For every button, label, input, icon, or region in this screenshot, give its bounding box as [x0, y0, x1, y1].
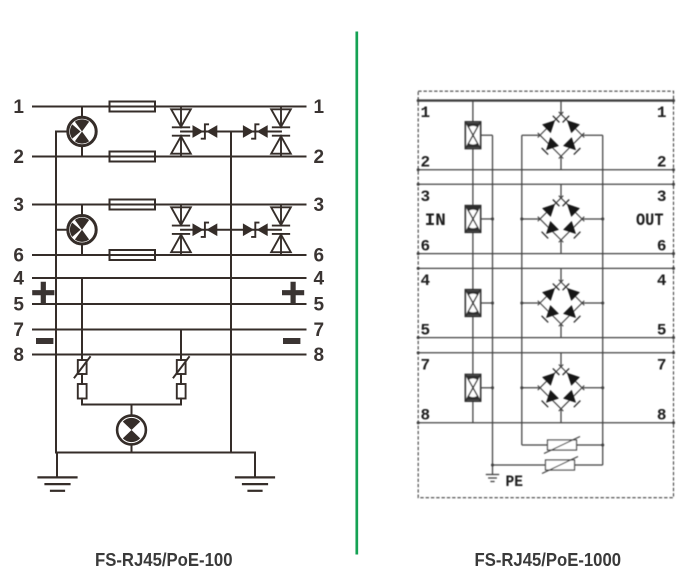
fuse F4	[110, 250, 156, 260]
wire rail 3	[418, 183, 673, 185]
wire branch 2 mid	[180, 374, 182, 384]
wire line 1	[33, 106, 306, 108]
node MOV1 right junction	[601, 443, 604, 446]
wire bridge 1 right stub	[582, 134, 603, 136]
diode bridge BR1	[538, 112, 585, 159]
wire branch 1 lower	[81, 399, 83, 405]
wire bridge 1 top stub	[560, 101, 562, 115]
TVS diode array right column row 1	[271, 107, 291, 157]
fuse F3	[110, 200, 156, 210]
gas discharge tube G3 (right diagram)	[465, 290, 480, 317]
wire line 4	[33, 277, 306, 279]
ground symbol right	[236, 477, 274, 490]
node bridge 2 right junction	[601, 217, 604, 220]
wire bridge 1 left stub	[522, 134, 540, 136]
svg-text:5: 5	[657, 321, 667, 339]
wire bridge 4 bottom stub	[560, 409, 562, 423]
wire line 5	[33, 303, 306, 305]
svg-text:3: 3	[657, 188, 667, 206]
gas discharge tube G2 (right diagram)	[465, 206, 480, 233]
svg-text:FS-RJ45/PoE-100: FS-RJ45/PoE-100	[95, 550, 233, 570]
fuse F1	[110, 102, 156, 112]
zener pair D2b	[243, 223, 268, 237]
svg-text:5: 5	[13, 295, 24, 316]
wire left earth drop	[56, 453, 58, 477]
wire GDT column vertical	[472, 101, 474, 423]
wire bridge 4 top stub	[560, 353, 562, 367]
diode bridge BR2	[538, 196, 585, 243]
wire branch 2 vertical	[180, 330, 182, 361]
polarity mark + left	[35, 284, 52, 301]
wire line 8	[33, 354, 306, 356]
fuse F2	[110, 152, 156, 162]
wire bridge 1 bottom stub	[560, 156, 562, 170]
wire line 7	[33, 329, 306, 331]
wire line 3	[33, 204, 306, 206]
gas discharge tube G4 (right diagram)	[465, 375, 480, 402]
wire line 6	[33, 254, 306, 256]
wire TVS centre tap vertical	[230, 132, 232, 453]
wire branch 2 lower	[180, 399, 182, 405]
wire bridge 2 bottom stub	[560, 240, 562, 254]
svg-text:7: 7	[314, 320, 325, 341]
wire bridge 2 right stub	[582, 218, 603, 220]
wire rail 4	[418, 267, 673, 269]
wire earth bus bottom	[56, 452, 255, 454]
node tap junction 2	[491, 217, 494, 220]
svg-text:7: 7	[421, 356, 431, 374]
wire rail 8	[418, 422, 673, 424]
wire branch join horizontal	[82, 404, 181, 406]
wire MOV1 left	[522, 444, 548, 446]
polarity mark + right	[285, 284, 302, 301]
polarity mark - right	[286, 338, 297, 344]
wire bridge 2 left stub	[522, 218, 540, 220]
node MOV2 left junction	[491, 463, 494, 466]
svg-text:4: 4	[421, 272, 431, 290]
svg-text:2: 2	[421, 154, 431, 172]
svg-text:4: 4	[657, 272, 667, 290]
wire right earth drop	[254, 453, 256, 477]
wire tap rail vertical	[492, 135, 494, 465]
wire rail 6	[418, 253, 673, 255]
diode bridge BR4	[538, 365, 585, 412]
svg-text:6: 6	[314, 246, 325, 267]
wire GT3 bottom	[131, 444, 133, 452]
svg-text:3: 3	[421, 188, 431, 206]
svg-text:FS-RJ45/PoE-1000: FS-RJ45/PoE-1000	[475, 550, 622, 570]
node bridge 3 left junction	[520, 301, 523, 304]
node bridge 3 right junction	[601, 301, 604, 304]
wire MOV2 left	[493, 464, 546, 466]
wire bridge 3 bottom stub	[560, 324, 562, 338]
wire bridge 4 left stub	[522, 387, 540, 389]
svg-text:6: 6	[421, 237, 431, 255]
svg-text:1: 1	[314, 97, 325, 118]
wire bridge 3 top stub	[560, 268, 562, 282]
gas discharge tube GT2 (3-pole, lines 3-6)	[56, 205, 96, 256]
thermal fuse link T2	[177, 384, 186, 399]
svg-text:PE: PE	[506, 473, 524, 491]
svg-text:1: 1	[657, 104, 667, 122]
zener pair D2a	[193, 223, 218, 237]
wire bridge 3 left stub	[522, 302, 540, 304]
TVS diode array left column row 2	[171, 205, 191, 256]
wire GDT tap 2	[481, 218, 493, 220]
svg-text:5: 5	[421, 321, 431, 339]
ground symbol PE	[486, 465, 499, 482]
wire bridge 4 right stub	[582, 387, 603, 389]
svg-text:2: 2	[314, 147, 325, 168]
svg-text:2: 2	[657, 154, 667, 172]
node tap junction 3	[491, 301, 494, 304]
divider green line	[355, 32, 358, 555]
node bridge 2 left junction	[520, 217, 523, 220]
gas discharge tube GT3 (2-pole)	[117, 416, 146, 445]
wire MOV1 right	[577, 444, 603, 446]
svg-text:8: 8	[421, 407, 431, 425]
ground symbol left	[39, 477, 77, 490]
wire TVS row 1 horizontal	[181, 131, 281, 133]
wire rail 5	[418, 337, 673, 339]
wire rail 7	[418, 352, 673, 354]
wire GT3 top tap	[131, 405, 133, 416]
wire GDT tap 1	[481, 134, 493, 136]
wire rail 1	[418, 99, 673, 101]
svg-text:7: 7	[13, 320, 24, 341]
svg-text:IN: IN	[425, 211, 446, 231]
wire branch 1 vertical	[81, 278, 83, 360]
svg-text:6: 6	[13, 246, 24, 267]
svg-text:7: 7	[657, 356, 667, 374]
TVS diode array right column row 2	[271, 205, 291, 256]
svg-text:8: 8	[13, 345, 24, 366]
svg-text:3: 3	[314, 195, 325, 216]
svg-text:3: 3	[13, 195, 24, 216]
gas discharge tube GT1 (3-pole, lines 1-2)	[56, 107, 96, 157]
varistor RV2	[174, 357, 190, 378]
wire TVS row 2 horizontal	[181, 229, 281, 231]
polarity mark - left	[39, 338, 50, 344]
diode bridge BR3	[538, 280, 585, 327]
wire bridge left rail vertical	[521, 135, 523, 445]
svg-text:6: 6	[657, 237, 667, 255]
TVS diode array left column row 1	[171, 107, 191, 157]
wire bridge right rail vertical	[602, 135, 604, 465]
zener pair D1a	[193, 124, 218, 138]
svg-text:8: 8	[657, 407, 667, 425]
wire rail 2	[418, 169, 673, 171]
wire bridge 2 top stub	[560, 184, 562, 198]
wire GDT tap 3	[481, 302, 493, 304]
node bridge 4 left junction	[520, 386, 523, 389]
svg-text:5: 5	[314, 295, 325, 316]
node tap junction 4	[491, 386, 494, 389]
varistor MOV1	[544, 437, 580, 454]
wire ground bus left vertical	[55, 132, 57, 453]
gas discharge tube G1 (right diagram)	[465, 122, 480, 149]
svg-text:1: 1	[421, 104, 431, 122]
svg-text:OUT: OUT	[636, 211, 664, 231]
wire GDT tap 4	[481, 387, 493, 389]
svg-text:2: 2	[13, 147, 24, 168]
enclosure dashed border	[418, 91, 673, 498]
wire branch 1 mid	[81, 374, 83, 384]
thermal fuse link T1	[78, 384, 87, 399]
varistor MOV2	[542, 457, 578, 474]
zener pair D1b	[243, 124, 268, 138]
svg-text:1: 1	[13, 97, 24, 118]
wire bridge 3 right stub	[582, 302, 603, 304]
varistor RV1	[75, 357, 91, 378]
wire line 2	[33, 156, 306, 158]
wire MOV2 right	[575, 464, 603, 466]
svg-text:8: 8	[314, 345, 325, 366]
node bridge 4 right junction	[601, 386, 604, 389]
svg-text:4: 4	[314, 269, 325, 290]
svg-text:4: 4	[13, 269, 24, 290]
